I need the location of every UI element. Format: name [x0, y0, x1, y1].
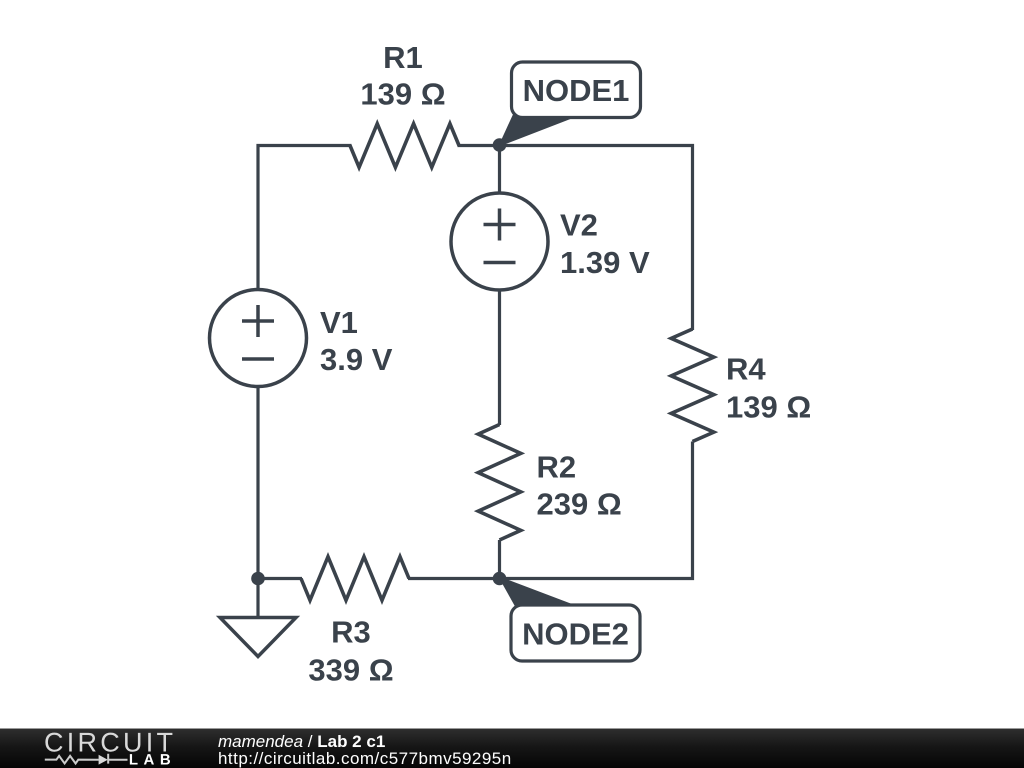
svg-text:NODE2: NODE2	[522, 616, 629, 651]
svg-text:R4: R4	[726, 351, 766, 386]
node NODE1 junction dot	[493, 138, 507, 152]
wire: left rail V1 bottom down to ground junction	[256, 387, 259, 579]
svg-text:V1: V1	[320, 305, 358, 340]
svg-text:1.39 V: 1.39 V	[560, 245, 650, 280]
voltage source V2	[451, 193, 548, 290]
wire: V2 bottom to R2 top	[498, 290, 501, 425]
wire: R2 bottom to node2	[498, 540, 501, 579]
CircuitLab logo	[30, 728, 210, 768]
wire: R4 down to bottom-right corner, left to node2	[500, 442, 693, 579]
wire: R3 right lead to node2	[408, 577, 500, 580]
svg-text:139 Ω: 139 Ω	[726, 389, 811, 424]
footer url line	[218, 749, 512, 768]
svg-text:V2: V2	[560, 207, 598, 242]
svg-text:339 Ω: 339 Ω	[308, 652, 393, 687]
voltage source V1	[210, 290, 307, 387]
node NODE2 junction dot	[493, 572, 507, 586]
logo resistor-diode glyph	[45, 754, 128, 764]
footer title line: mamendea / Lab 2 c1	[218, 732, 385, 751]
resistor R1	[350, 124, 459, 168]
wire: node1 down to V2 top	[498, 146, 501, 195]
svg-text:R2: R2	[537, 449, 577, 484]
wire: R1 to node1 to top-right corner, down right rail to R4	[458, 146, 693, 331]
node NODE2 label box	[511, 605, 640, 661]
svg-text:139 Ω: 139 Ω	[360, 76, 445, 111]
node A junction dot (ground junction)	[251, 572, 265, 586]
NODE1 label pointer wedge	[498, 110, 573, 147]
NODE2 label pointer wedge	[498, 576, 572, 610]
logo diode triangle	[99, 755, 108, 765]
svg-text:3.9 V: 3.9 V	[320, 342, 393, 377]
wire: top rail left segment (corner to R1)	[258, 146, 352, 290]
svg-text:LAB: LAB	[129, 752, 176, 768]
resistor R2	[478, 425, 521, 540]
svg-text:239 Ω: 239 Ω	[537, 486, 622, 521]
node NODE1 label box	[512, 62, 641, 118]
svg-text:R3: R3	[331, 614, 371, 649]
svg-text:R1: R1	[383, 40, 423, 75]
svg-text:NODE1: NODE1	[523, 73, 630, 108]
footer bar	[0, 728, 1024, 768]
resistor R4	[671, 329, 714, 442]
wire: ground junction to R3 left lead	[258, 577, 302, 580]
resistor R3	[301, 557, 409, 601]
ground symbol	[256, 579, 259, 618]
